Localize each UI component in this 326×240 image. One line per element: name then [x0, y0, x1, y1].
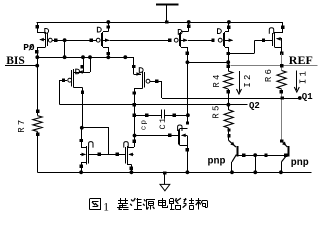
wire M6 gate to q1 — [150, 80, 162, 99]
wire PMOS gate bus — [51, 38, 214, 42]
label I1 — [298, 69, 308, 84]
transistor M9 (NMOS) — [178, 121, 190, 172]
wire M7/M8 gate bus — [80, 126, 125, 156]
svg-text:C1: C1 — [158, 116, 168, 129]
label C1 — [158, 116, 168, 129]
label pnp right — [291, 158, 309, 169]
capacitor C1 — [134, 110, 188, 119]
wire M3 source / C1 / M9 drain node — [186, 60, 190, 123]
svg-text:I1: I1 — [298, 69, 308, 84]
resistor R4 — [224, 71, 233, 110]
wire M1 source to R7 — [35, 52, 39, 115]
label P0 — [23, 42, 35, 53]
transistor M8 (NMOS diff pair) — [124, 140, 136, 173]
label q2 — [249, 101, 260, 111]
label pnp left — [208, 157, 226, 168]
wire VDD rail — [37, 22, 283, 24]
junction VDD-stem — [165, 20, 168, 23]
label R5 — [212, 103, 222, 118]
caption 图1 基准源电路结构 — [89, 198, 207, 213]
junction REF stub — [280, 64, 283, 67]
transistor M3 (PMOS cascode) — [174, 22, 190, 62]
svg-text:REF: REF — [289, 53, 313, 67]
transistor M10 (NMOS source follower, REF) — [269, 22, 284, 55]
wire bias bus node A — [35, 55, 133, 59]
svg-text:Q1: Q1 — [302, 92, 313, 102]
wire net REF (gray) — [230, 53, 317, 141]
svg-text:pnp: pnp — [291, 158, 309, 169]
label I2 — [243, 72, 253, 87]
current arrow I2 — [237, 71, 242, 94]
junction M4 drain on rail — [227, 20, 231, 24]
transistor P0 (PMOS M1, diode-connected) — [35, 22, 52, 54]
junction q1 on REF net — [281, 96, 284, 99]
label BIS — [6, 55, 25, 67]
wire BIS stub — [5, 65, 37, 67]
wire ground rail — [37, 170, 311, 174]
junction M3 drain on rail — [187, 20, 191, 24]
transistor M7 (NMOS diff pair) — [79, 128, 93, 173]
resistor R7 — [33, 110, 42, 173]
junction M2 drain on rail — [106, 20, 110, 24]
svg-text:R6: R6 — [264, 67, 274, 82]
transistor M5 (PMOS second stage) — [60, 57, 91, 128]
transistor M2 (PMOS current mirror) — [96, 22, 110, 57]
transistor M4 (PMOS cascode) — [218, 22, 234, 62]
transistor Q1 (pnp) — [280, 139, 289, 172]
svg-text:Q2: Q2 — [249, 101, 260, 111]
resistor R6 — [277, 71, 286, 94]
svg-text:P0: P0 — [23, 42, 35, 53]
svg-text:cp: cp — [141, 119, 149, 130]
wire M3/M4 source node to R4 — [187, 60, 230, 71]
ground symbol — [160, 172, 170, 191]
power supply VDD symbol — [156, 5, 178, 23]
svg-text:R5: R5 — [212, 103, 222, 118]
label q1 — [302, 92, 313, 102]
resistor R5 — [224, 110, 233, 141]
label R6 — [264, 67, 274, 82]
svg-text:I2: I2 — [243, 72, 253, 87]
svg-text:1: 1 — [103, 201, 109, 213]
wire M1 diode connection — [64, 40, 66, 57]
svg-text:pnp: pnp — [208, 157, 226, 168]
wire net q1 — [162, 96, 302, 100]
transistor M6 (PMOS) — [132, 57, 150, 104]
wire pnp base bus to ground — [237, 153, 288, 172]
wire M6 drain / M8 drain / C1 node — [133, 105, 137, 142]
label R7 — [17, 118, 27, 133]
wire M9 gate — [135, 134, 179, 137]
current arrow I1 — [294, 71, 299, 93]
label R4 — [212, 72, 222, 87]
label REF — [289, 53, 313, 67]
label cp — [141, 119, 149, 130]
transistor Q2 (pnp) — [229, 140, 238, 172]
svg-text:R7: R7 — [17, 118, 27, 133]
svg-text:R4: R4 — [212, 72, 222, 87]
wire M10 gate to M4 drain — [229, 39, 273, 54]
junction ground tap — [163, 171, 166, 174]
wire net q2 / M5 gate bus — [60, 80, 248, 106]
